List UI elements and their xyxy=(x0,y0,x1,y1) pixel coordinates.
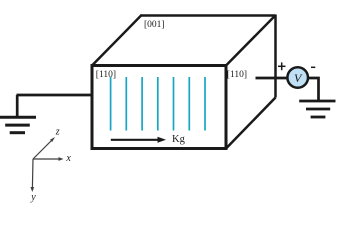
axis x xyxy=(33,157,64,161)
axis y xyxy=(30,159,34,192)
svg-text:Kg: Kg xyxy=(172,134,186,145)
grating fringe lines (cyan) xyxy=(111,77,205,131)
sample box left top diagonal edge xyxy=(92,15,142,66)
ground right xyxy=(299,101,335,117)
ground left xyxy=(0,117,36,133)
wire box to voltmeter xyxy=(256,77,288,80)
sample box back right edge xyxy=(274,15,277,98)
minus sign xyxy=(311,66,315,68)
wire voltmeter to ground xyxy=(308,78,319,100)
arrow Kg xyxy=(111,137,166,143)
sample box right bottom diagonal edge xyxy=(226,98,276,149)
voltmeter V xyxy=(287,67,308,88)
svg-text:z: z xyxy=(55,126,60,137)
svg-text:y: y xyxy=(30,192,36,203)
svg-text:[001]: [001] xyxy=(144,20,165,30)
axis z xyxy=(33,137,55,159)
ground left stub xyxy=(16,95,19,117)
svg-text:[110]: [110] xyxy=(227,70,247,80)
wire left electrode xyxy=(17,94,93,97)
plus sign xyxy=(278,62,286,70)
sample box right top diagonal edge xyxy=(226,15,276,65)
sample box back top edge xyxy=(141,14,276,17)
svg-text:x: x xyxy=(65,153,71,164)
sample box front face xyxy=(92,66,226,149)
svg-text:[110]: [110] xyxy=(96,70,116,80)
